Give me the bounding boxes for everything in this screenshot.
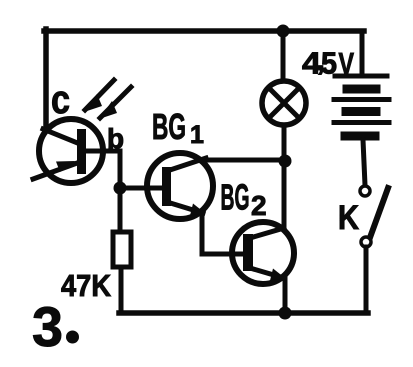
transistor BG1 emitter lead [167,202,203,213]
battery GB1 plate short 2 [346,107,376,116]
transistor BG1 base bar [162,167,171,206]
svg-text:K: K [338,199,359,237]
node B junction dot [279,155,292,168]
transistor BG2 base bar [243,234,253,271]
wire top rail to lamp [281,31,286,81]
phototransistor VT1 emitter lead [33,162,80,179]
light arrow 2 shaft [100,87,131,118]
lamp HL1 cross [269,88,300,119]
resistor 47K body [113,232,131,267]
wire base of VT1 to node A [85,151,120,186]
phototransistor VT1 collector lead [43,129,80,144]
wire lamp to node B [282,125,287,161]
battery GB1 plate short 3 [345,132,375,141]
transistor BG1 body [147,153,213,219]
wire left rail (top to phototransistor collector) [43,29,49,127]
node top junction dot [277,25,290,38]
battery GB1 plate long 1 [335,74,387,79]
lamp HL1 body [262,81,306,125]
svg-text:c: c [51,78,70,122]
svg-text:47K: 47K [61,268,112,303]
wire switch to bottom rail [364,247,369,313]
transistor BG2 collector lead [250,228,284,238]
phototransistor VT1 base bar [77,129,86,174]
switch K bottom contact [361,237,371,247]
wire node A to BG1 base [120,186,163,191]
wire BG1 emitter to BG2 base [202,213,246,254]
transistor BG1 emitter arrow [190,204,205,216]
wire top rail [44,28,364,34]
transistor BG2 body [232,222,294,284]
battery GB1 plate long 3 [334,120,389,125]
wire battery to switch [363,140,365,185]
wire BG1 collector to node B [204,158,285,163]
node C junction dot [279,307,292,320]
wire BG2 emitter to bottom rail [283,278,288,313]
light arrow 2 head [99,101,117,119]
svg-text:3: 3 [32,295,63,358]
svg-text:BG: BG [221,177,250,218]
transistor BG2 emitter lead [250,268,284,278]
wire bottom rail [119,310,368,316]
light arrow 1 shaft [85,80,114,110]
wire resistor to bottom rail [119,267,124,313]
light arrow 1 head [84,94,102,112]
wire right drop to battery [360,31,365,76]
switch K top contact [360,186,370,196]
svg-text:BG: BG [152,106,186,147]
svg-text:1: 1 [190,121,204,149]
svg-text:2: 2 [251,190,267,221]
wire node B to BG2 collector [282,161,287,228]
battery GB1 plate short 1 [347,85,376,94]
phototransistor VT1 body [39,119,103,183]
battery GB1 plate long 2 [334,97,389,102]
node A junction dot [114,182,127,195]
switch K blade [368,188,388,243]
wire node A to resistor [118,188,123,233]
transistor BG2 emitter arrow [270,269,285,281]
phototransistor VT1 emitter arrow [56,161,75,172]
transistor BG1 collector lead [167,158,206,171]
